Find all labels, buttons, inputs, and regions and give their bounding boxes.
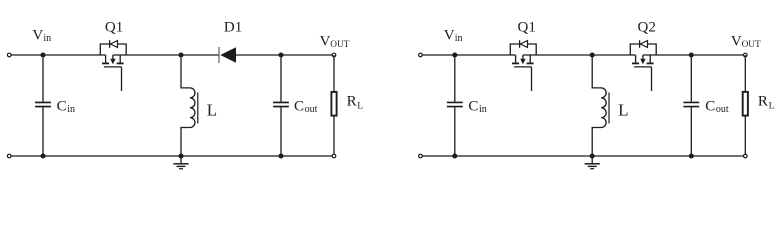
capacitor Cin (right) — [447, 55, 463, 156]
svg-text:in: in — [67, 104, 75, 115]
svg-text:out: out — [305, 104, 318, 115]
junction Cin top (right circuit) — [452, 52, 457, 57]
ground — [585, 156, 600, 169]
svg-text:Q2: Q2 — [638, 19, 656, 35]
svg-text:C: C — [468, 98, 478, 114]
svg-text:R: R — [758, 93, 768, 109]
wire top rail: Vin terminal to Q1 drain (right circuit) — [422, 54, 515, 56]
svg-text:C: C — [705, 98, 715, 114]
junction Cin bottom (right circuit) — [452, 153, 457, 158]
wire bottom rail — [11, 155, 332, 157]
junction L bottom / ground node — [178, 153, 183, 158]
wire bottom rail (right circuit) — [422, 155, 743, 157]
node VOUT terminal (top-right) — [332, 53, 336, 57]
resistor RL — [331, 55, 336, 156]
svg-text:out: out — [716, 104, 729, 115]
inductor L — [181, 55, 198, 156]
junction Cin top — [40, 52, 45, 57]
node VOUT terminal (top-right, right circuit) — [744, 53, 748, 57]
svg-text:L: L — [357, 102, 363, 112]
wire top rail: Vin terminal to Q1 drain — [11, 54, 106, 56]
node bottom-left terminal — [7, 154, 11, 158]
svg-text:V: V — [444, 28, 455, 44]
junction Cout bottom (right circuit) — [689, 153, 694, 158]
svg-text:in: in — [479, 104, 487, 115]
node Vin terminal (top-left) — [7, 53, 11, 57]
junction switch node (L top, right circuit) — [590, 52, 595, 57]
junction Cout bottom — [278, 153, 283, 158]
svg-text:R: R — [347, 93, 357, 109]
svg-text:in: in — [455, 33, 463, 44]
svg-text:OUT: OUT — [330, 40, 349, 50]
resistor RL — [743, 55, 748, 156]
svg-text:V: V — [731, 33, 742, 49]
junction Cout top — [278, 52, 283, 57]
svg-text:L: L — [769, 102, 775, 112]
svg-text:C: C — [294, 98, 304, 114]
transistor Q1 — [100, 40, 126, 91]
svg-text:V: V — [32, 28, 43, 44]
junction Cout top (right circuit) — [689, 52, 694, 57]
node Vin terminal (top-left, right circuit) — [419, 53, 423, 57]
svg-text:Q1: Q1 — [518, 19, 536, 35]
transistor Q1 — [510, 40, 536, 91]
ground — [173, 156, 188, 169]
capacitor Cout (right) — [683, 55, 699, 156]
transistor Q2 — [630, 40, 656, 91]
node bottom-right terminal (right circuit) — [744, 154, 748, 158]
node bottom-left terminal (right circuit) — [419, 154, 423, 158]
capacitor Cin — [35, 55, 51, 156]
capacitor Cout — [273, 55, 289, 156]
inductor L — [592, 55, 609, 156]
wire top rail: D1 cathode to VOUT terminal — [236, 54, 332, 56]
svg-text:OUT: OUT — [742, 40, 761, 50]
wire top rail: Q1 source to Q2 drain (right circuit) — [523, 54, 636, 56]
node bottom-right terminal — [332, 154, 336, 158]
svg-text:D1: D1 — [224, 19, 242, 35]
diode D1 — [219, 47, 236, 63]
wire top rail: Q2 source to VOUT terminal (right circuit) — [643, 54, 744, 56]
svg-text:L: L — [618, 100, 628, 119]
svg-text:C: C — [57, 98, 67, 114]
junction L bottom / ground node (right circuit) — [590, 153, 595, 158]
svg-text:V: V — [320, 33, 331, 49]
svg-text:L: L — [207, 100, 217, 119]
svg-text:Q1: Q1 — [105, 19, 123, 35]
wire top rail: Q1 source to D1 anode — [113, 54, 219, 56]
svg-text:in: in — [43, 33, 51, 44]
junction switch node (L top) — [178, 52, 183, 57]
junction Cin bottom — [40, 153, 45, 158]
